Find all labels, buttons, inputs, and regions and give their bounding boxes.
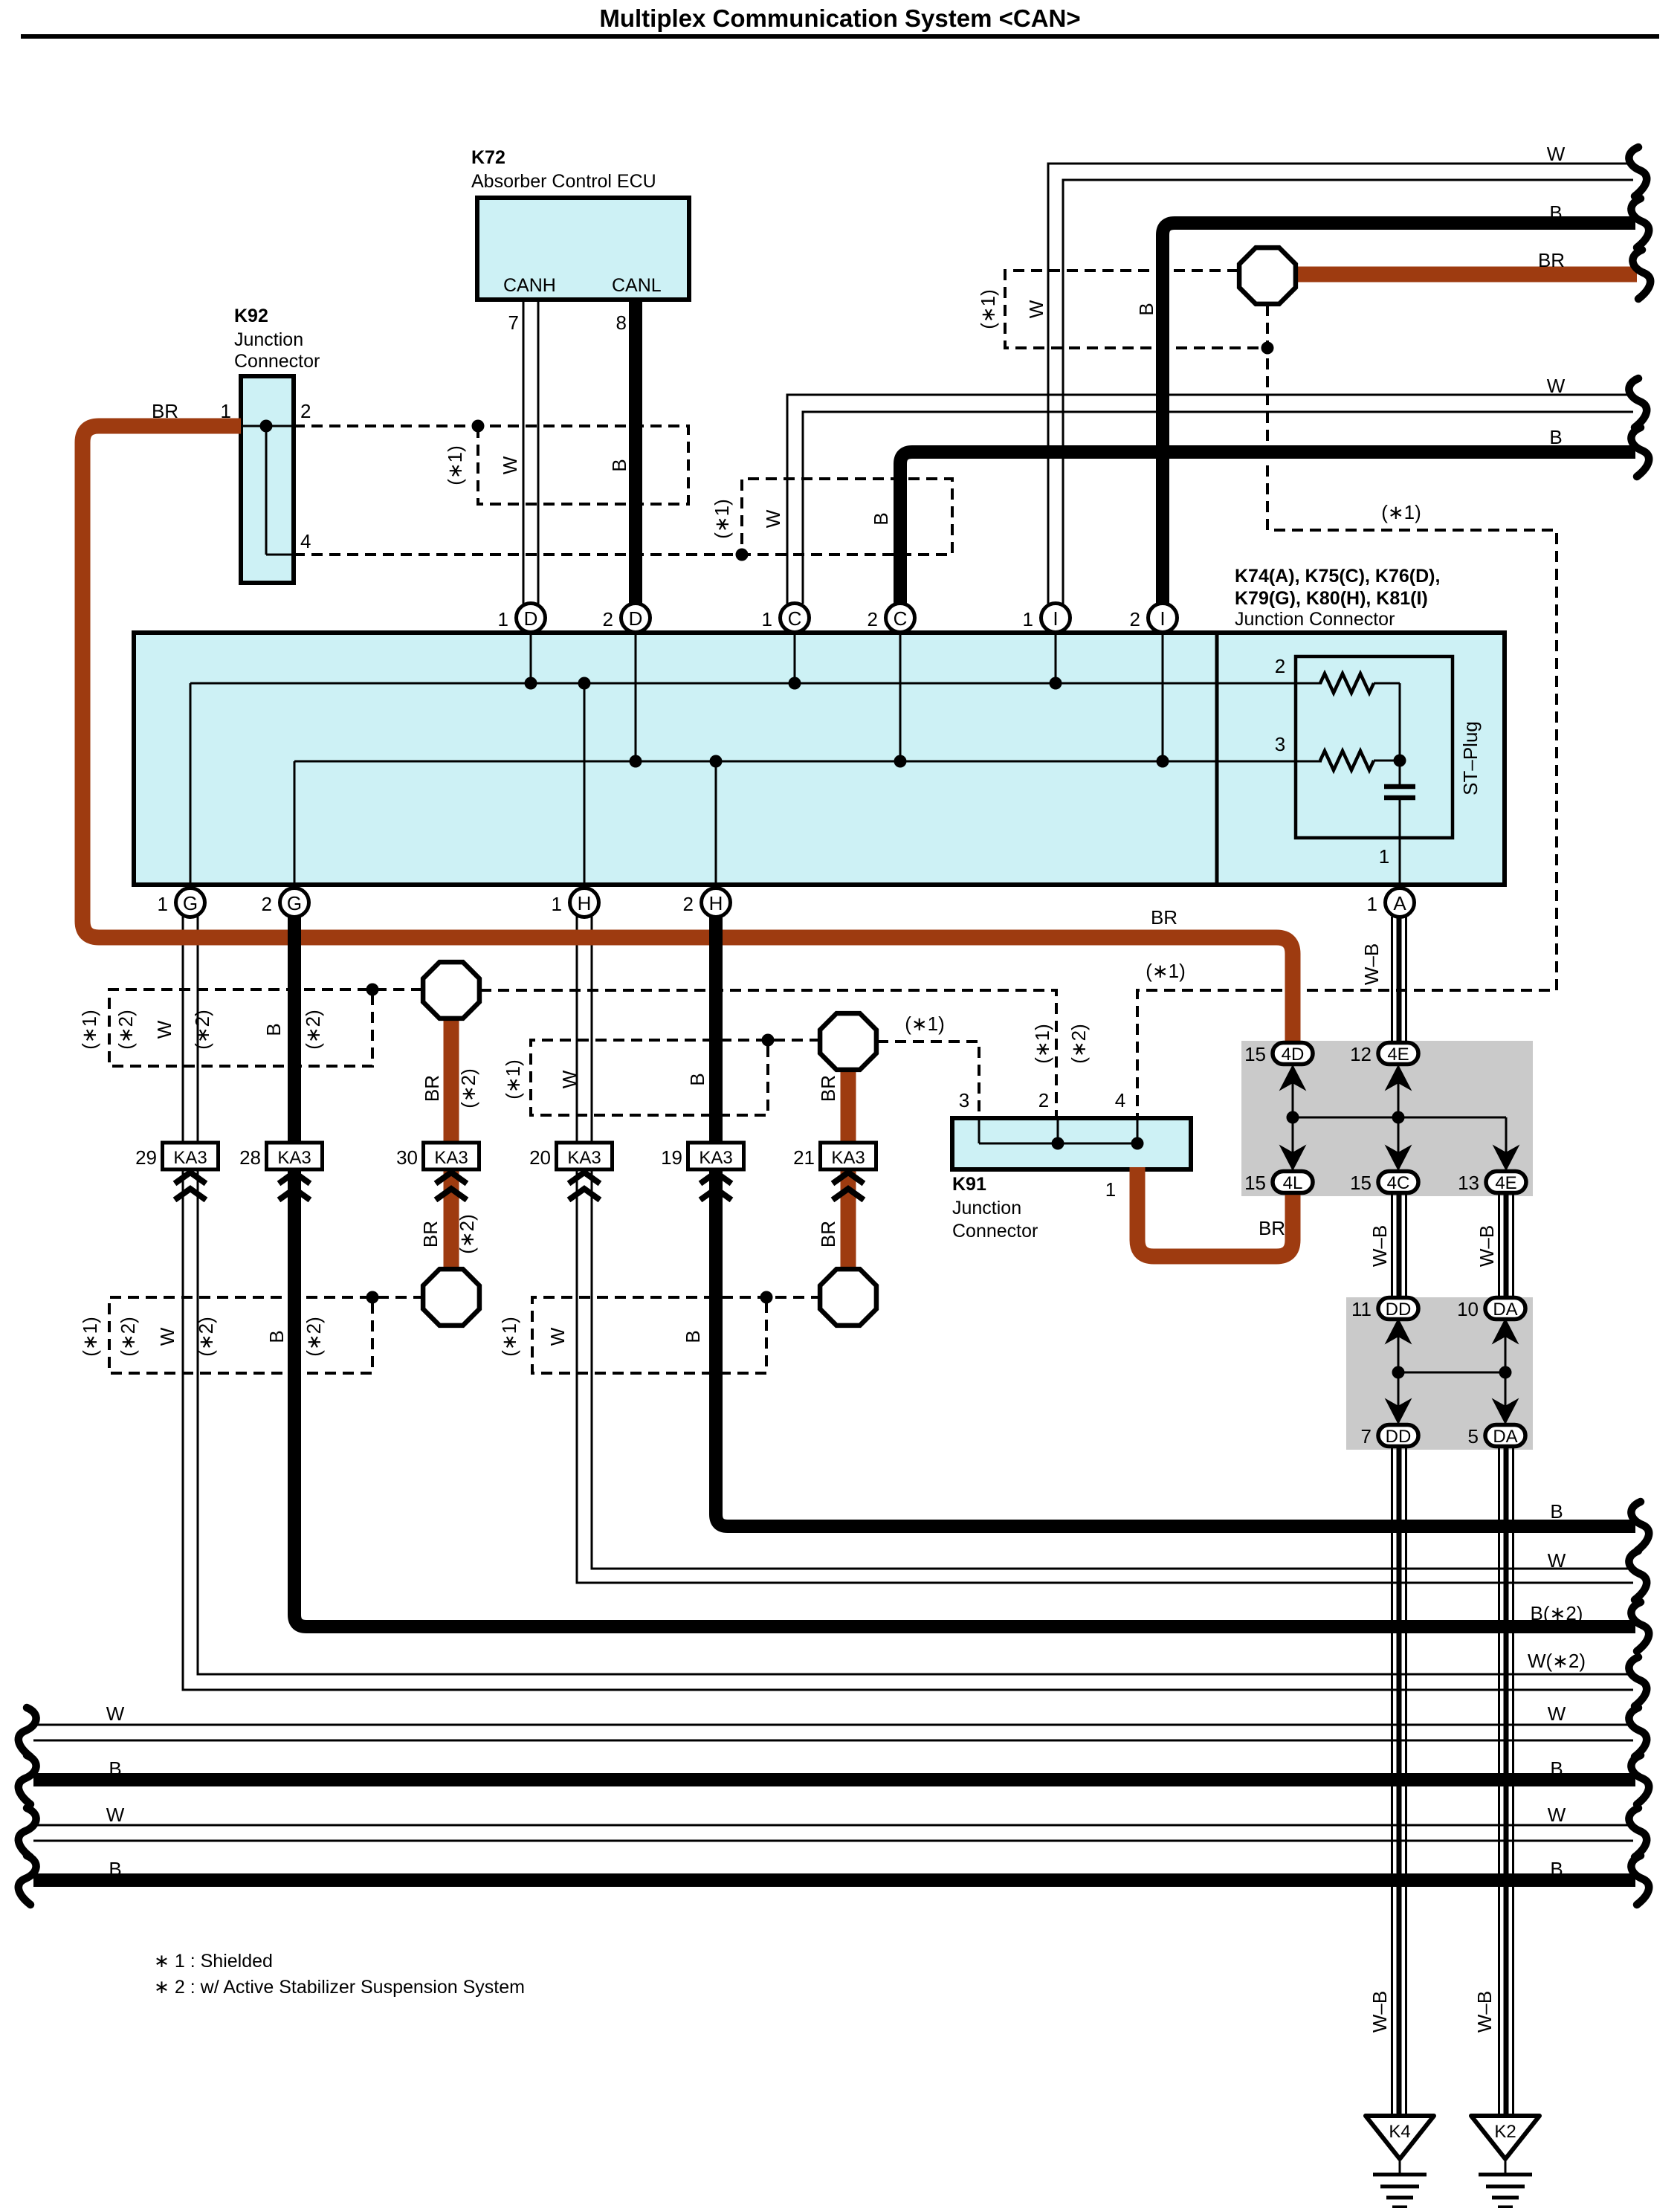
node 1D <box>525 677 537 690</box>
svg-text:W: W <box>153 1020 175 1039</box>
svg-text:B: B <box>870 512 892 525</box>
svg-text:I: I <box>1053 607 1058 630</box>
svg-text:W: W <box>1548 1549 1566 1572</box>
label W lower2 L <box>106 1804 125 1826</box>
pin 2H <box>683 888 731 917</box>
svg-text:10: 10 <box>1457 1298 1479 1320</box>
svg-text:(∗2): (∗2) <box>302 1010 324 1050</box>
svg-text:20: 20 <box>529 1146 551 1169</box>
break B right 2 <box>1631 427 1649 477</box>
stub 1G <box>190 683 192 885</box>
svg-text:W–B: W–B <box>1369 1225 1391 1267</box>
svg-text:ST–Plug: ST–Plug <box>1459 721 1482 795</box>
label W-B ground K2 <box>1473 1991 1496 2033</box>
wire BR 30 KA3 to lower shield terminal <box>444 1169 459 1297</box>
K91 internal bus <box>979 1118 1144 1150</box>
svg-text:A: A <box>1393 892 1406 914</box>
svg-text:15: 15 <box>1350 1172 1372 1194</box>
label BR right <box>1151 906 1177 929</box>
connector 21 KA3 <box>793 1143 876 1200</box>
svg-text:K92: K92 <box>234 306 268 326</box>
label B lower1 L <box>109 1757 121 1780</box>
svg-text:4C: 4C <box>1387 1173 1410 1193</box>
svg-text:W–B: W–B <box>1360 943 1383 985</box>
svg-text:I: I <box>1160 607 1165 630</box>
svg-text:W: W <box>106 1702 125 1725</box>
svg-text:BR: BR <box>421 1075 443 1102</box>
svg-text:Multiplex Communication System: Multiplex Communication System <CAN> <box>599 4 1080 32</box>
connector 7 DD <box>1361 1425 1418 1448</box>
connector 11 DD <box>1351 1298 1418 1321</box>
break BR right <box>1632 250 1650 299</box>
svg-text:BR: BR <box>419 1221 442 1247</box>
label B shield topright <box>1135 303 1157 315</box>
label K92 <box>234 306 320 372</box>
label BR top right <box>1538 249 1565 271</box>
label B bus <box>1550 1500 1563 1523</box>
terminating resistor pin2 <box>1320 674 1400 761</box>
shield terminal 30 lower <box>423 1269 479 1326</box>
svg-text:K79(G), K80(H), K81(I): K79(G), K80(H), K81(I) <box>1235 588 1428 609</box>
pin 2G <box>262 888 309 917</box>
svg-text:7: 7 <box>1361 1425 1372 1447</box>
svg-text:BR: BR <box>1259 1217 1285 1239</box>
svg-text:5: 5 <box>1468 1425 1479 1447</box>
wire W bus lower 2 <box>33 1825 1633 1841</box>
wire W to 1C <box>787 395 1633 604</box>
connector 15 4C <box>1350 1172 1418 1195</box>
svg-text:DA: DA <box>1493 1427 1517 1447</box>
label upper G shield (*2)b <box>191 1010 213 1050</box>
connector 19 KA3 <box>661 1143 743 1200</box>
break B lower1 left <box>19 1755 36 1804</box>
svg-text:(∗1): (∗1) <box>1031 1024 1053 1064</box>
label (*2) K91 pin2 <box>1067 1024 1090 1064</box>
break B lower1 right <box>1631 1755 1649 1804</box>
svg-text:11: 11 <box>1351 1298 1372 1320</box>
svg-text:W: W <box>762 509 784 528</box>
label (*2) 30 upper <box>457 1068 479 1108</box>
label lower H shield B <box>682 1330 704 1343</box>
connector 30 KA3 <box>396 1143 479 1200</box>
stub 1I <box>1055 633 1057 683</box>
svg-text:1: 1 <box>1367 893 1377 915</box>
stub 2D <box>635 633 637 761</box>
label upper H shield B <box>686 1073 708 1085</box>
svg-text:12: 12 <box>1350 1043 1372 1065</box>
svg-text:21: 21 <box>793 1146 815 1169</box>
label (*1) to K91 pin3 <box>905 1013 945 1035</box>
svg-text:CANL: CANL <box>612 275 662 296</box>
tie line 4D-4E-4E <box>1281 1066 1518 1172</box>
svg-text:BR: BR <box>817 1075 839 1102</box>
svg-text:D: D <box>524 607 538 630</box>
svg-text:BR: BR <box>1151 906 1177 929</box>
label BR K91 <box>1259 1217 1285 1239</box>
wire B bus lower 1 <box>33 1773 1635 1786</box>
svg-text:K72: K72 <box>471 147 505 168</box>
svg-text:W: W <box>1548 1804 1566 1826</box>
wire W bus lower 1 <box>33 1725 1633 1740</box>
svg-text:1: 1 <box>221 400 231 422</box>
svg-text:KA3: KA3 <box>173 1148 207 1168</box>
svg-text:(∗2): (∗2) <box>191 1010 213 1050</box>
svg-text:1: 1 <box>552 893 562 915</box>
label lower G shield (*2)c <box>303 1317 325 1357</box>
node 1I <box>1050 677 1062 690</box>
label B shield CANL <box>608 459 630 471</box>
label upper G shield B <box>262 1023 285 1036</box>
label K92 pin1 <box>221 400 231 422</box>
svg-text:(∗1): (∗1) <box>444 445 466 485</box>
shield around 1G/2G lower <box>109 1291 424 1374</box>
svg-text:W: W <box>1547 375 1566 397</box>
label B lower1 R <box>1550 1757 1563 1780</box>
ground K4 <box>1366 2116 1434 2207</box>
svg-text:Absorber Control ECU: Absorber Control ECU <box>471 171 656 192</box>
label W right 2 <box>1547 375 1566 397</box>
svg-text:∗ 1 : Shielded: ∗ 1 : Shielded <box>154 1951 273 1972</box>
node 1H <box>578 677 591 690</box>
break W right top <box>1629 147 1647 196</box>
svg-text:KA3: KA3 <box>831 1148 865 1168</box>
break W lower2 left <box>19 1808 36 1857</box>
svg-text:KA3: KA3 <box>277 1148 311 1168</box>
break B(*2) right bus <box>1631 1602 1649 1651</box>
svg-text:B: B <box>1549 201 1562 224</box>
label B right 2 <box>1549 426 1562 448</box>
label W lower2 R <box>1548 1804 1566 1826</box>
connector 20 KA3 <box>529 1143 612 1200</box>
svg-text:4L: 4L <box>1283 1173 1303 1193</box>
break B lower2 right <box>1631 1856 1649 1905</box>
svg-text:B: B <box>1549 426 1562 448</box>
label K91 pin2 num <box>1038 1089 1049 1111</box>
svg-text:KA3: KA3 <box>699 1148 732 1168</box>
inline connector block 4D/4E/4L/4C <box>1241 1041 1533 1196</box>
junction connector K74/K75/K76/K79/K80/K81 box <box>134 633 1505 885</box>
svg-text:(∗2): (∗2) <box>114 1010 137 1050</box>
svg-text:19: 19 <box>661 1146 682 1169</box>
stub 1H <box>584 683 586 885</box>
label W lower1 R <box>1548 1702 1566 1725</box>
connector 15 4L <box>1244 1172 1313 1195</box>
svg-text:DA: DA <box>1493 1300 1517 1320</box>
svg-text:2: 2 <box>1038 1089 1049 1111</box>
svg-text:B: B <box>262 1023 285 1036</box>
svg-text:(∗2): (∗2) <box>456 1214 478 1254</box>
wire W from 1G to W(*2) bus <box>183 917 1633 1690</box>
shield terminal top right <box>1239 248 1296 304</box>
svg-text:W: W <box>558 1070 581 1088</box>
svg-text:(∗1): (∗1) <box>78 1010 100 1050</box>
junction box CANL internal row <box>294 761 1322 763</box>
svg-text:Connector: Connector <box>234 351 320 372</box>
svg-text:(∗1): (∗1) <box>711 499 733 539</box>
label W-B pin A <box>1360 943 1383 985</box>
wire B to 2C <box>900 452 1635 604</box>
svg-text:4: 4 <box>300 530 311 552</box>
svg-text:(∗1): (∗1) <box>905 1013 945 1035</box>
wire BR shield terminal to 30 KA3 <box>444 990 459 1143</box>
break W lower1 right <box>1629 1708 1647 1757</box>
svg-text:(∗1): (∗1) <box>977 289 999 329</box>
svg-text:∗ 2 : w/ Active Stabilizer Sus: ∗ 2 : w/ Active Stabilizer Suspension Sy… <box>154 1977 525 1998</box>
svg-text:2: 2 <box>300 400 311 422</box>
shield terminal 21 upper <box>820 1013 876 1070</box>
label lower G shield W <box>156 1327 178 1346</box>
svg-text:K2: K2 <box>1494 2122 1516 2142</box>
label K92 pin2 <box>300 400 311 422</box>
stub 2C <box>899 633 902 761</box>
svg-text:(∗1): (∗1) <box>79 1317 101 1357</box>
wire CANH pair (W) K72 pin7 to 1D <box>523 300 538 604</box>
svg-text:W: W <box>499 456 521 474</box>
wire W-B 7-DD to ground K4 <box>1392 1446 1406 2116</box>
break B right top <box>1631 198 1649 248</box>
label W-B ground K4 <box>1369 1991 1391 2033</box>
svg-text:(∗2): (∗2) <box>117 1317 139 1357</box>
break W lower1 left <box>19 1708 36 1757</box>
svg-text:W: W <box>1548 1702 1566 1725</box>
pin 2I <box>1130 604 1177 633</box>
label lower G shield (*2)b <box>195 1317 217 1357</box>
wire W-B 13-4E to 10-DA <box>1499 1192 1513 1298</box>
svg-text:29: 29 <box>135 1146 157 1169</box>
svg-text:CANH: CANH <box>503 275 556 296</box>
K92 internal bus <box>241 420 294 555</box>
svg-text:B: B <box>1550 1500 1563 1523</box>
svg-text:B: B <box>608 459 630 471</box>
label B lower2 L <box>109 1858 121 1880</box>
svg-text:2: 2 <box>868 608 878 630</box>
node 2C <box>894 755 907 768</box>
svg-text:8: 8 <box>616 311 627 334</box>
stub 1C <box>794 633 796 683</box>
svg-text:DD: DD <box>1386 1300 1412 1320</box>
label B top right <box>1549 201 1562 224</box>
svg-text:B: B <box>686 1073 708 1085</box>
svg-text:C: C <box>894 607 908 630</box>
label upper G shield (*1) <box>78 1010 100 1050</box>
svg-text:W(∗2): W(∗2) <box>1528 1650 1586 1672</box>
label W shield topright <box>1025 300 1047 318</box>
label B shield 2C <box>870 512 892 525</box>
pin 2C <box>868 604 915 633</box>
label BR 30 upper <box>421 1075 443 1102</box>
label BR 21 lower <box>817 1221 839 1247</box>
break W right bus <box>1629 1551 1647 1600</box>
svg-text:B: B <box>265 1330 288 1343</box>
label ST-Plug pin3 <box>1275 733 1285 755</box>
svg-text:KA3: KA3 <box>567 1148 601 1168</box>
junction connector K91 box <box>952 1118 1191 1169</box>
svg-text:W–B: W–B <box>1476 1225 1498 1267</box>
shield terminal 21 lower <box>820 1269 876 1326</box>
label lower G shield (*1) <box>79 1317 101 1357</box>
label K91 pin3 <box>959 1089 969 1111</box>
svg-text:B: B <box>109 1858 121 1880</box>
shield (*1) around top-right W/B to shield terminal <box>1005 271 1274 355</box>
wire BR shield terminal to right edge <box>1286 267 1637 283</box>
svg-text:7: 7 <box>508 311 519 334</box>
pin 2D <box>603 604 650 633</box>
connector 12 4E <box>1350 1043 1418 1066</box>
stub 2G <box>294 761 296 885</box>
svg-text:1: 1 <box>762 608 772 630</box>
label ST-Plug <box>1459 721 1482 795</box>
label (*1) K91 pin2 <box>1031 1024 1053 1064</box>
shield terminal 30 to K91 pin2 <box>480 990 1056 1118</box>
wire W-B 5-DA to ground K2 <box>1499 1446 1513 2116</box>
svg-text:B: B <box>109 1757 121 1780</box>
svg-text:3: 3 <box>959 1089 969 1111</box>
svg-text:H: H <box>709 892 723 914</box>
svg-text:1: 1 <box>158 893 168 915</box>
svg-text:Connector: Connector <box>952 1221 1038 1242</box>
title <box>21 4 1659 36</box>
svg-text:(∗2): (∗2) <box>1067 1024 1090 1064</box>
svg-text:K91: K91 <box>952 1174 986 1195</box>
label ST-Plug pin2 <box>1275 655 1285 677</box>
ground K2 <box>1471 2116 1540 2207</box>
svg-text:W–B: W–B <box>1473 1991 1496 2033</box>
label W bus <box>1548 1549 1566 1572</box>
connector 5 DA <box>1468 1425 1525 1448</box>
break W right 2 <box>1629 378 1647 427</box>
svg-text:W: W <box>546 1327 569 1346</box>
connector 29 KA3 <box>135 1143 218 1200</box>
svg-text:4D: 4D <box>1282 1045 1305 1065</box>
svg-text:(∗1): (∗1) <box>1146 960 1186 982</box>
wire W to 1I <box>1048 164 1633 604</box>
pin 1G <box>158 888 205 917</box>
label upper G shield (*2)c <box>302 1010 324 1050</box>
svg-text:1: 1 <box>1105 1178 1116 1201</box>
terminating resistor pin3 <box>1320 751 1406 770</box>
label lower H shield (*1) <box>498 1317 520 1357</box>
connector 15 4D <box>1244 1043 1313 1066</box>
wire B bus lower 2 <box>33 1873 1635 1887</box>
label B(*2) bus <box>1531 1602 1583 1624</box>
label lower H shield W <box>546 1327 569 1346</box>
label 4E-DA W-B <box>1476 1225 1498 1267</box>
break B right bus <box>1631 1502 1649 1551</box>
label W shield 1C <box>762 509 784 528</box>
label upper H shield W <box>558 1070 581 1088</box>
svg-text:1: 1 <box>498 608 508 630</box>
shield (*1) around CANH/CANL from K92 pin2 <box>294 420 688 505</box>
label K72 <box>471 147 656 192</box>
label K92 pin4 <box>300 530 311 552</box>
label pin 8 <box>616 311 627 334</box>
wire B from 2H to B bus <box>716 917 1635 1526</box>
wire W-B 15-4C to 11-DD <box>1392 1192 1406 1298</box>
node 1C <box>789 677 801 690</box>
svg-text:2: 2 <box>262 893 272 915</box>
svg-text:B: B <box>1135 303 1157 315</box>
inline connector block DD/DA <box>1346 1297 1533 1450</box>
shield around 1H/2H upper <box>531 1034 821 1116</box>
svg-text:(∗2): (∗2) <box>195 1317 217 1357</box>
svg-text:1: 1 <box>1023 608 1033 630</box>
wire BR 21 KA3 to lower shield terminal <box>841 1169 856 1297</box>
label upper G shield (*2)a <box>114 1010 137 1050</box>
junction connector K92 box <box>241 376 294 583</box>
svg-text:(∗1): (∗1) <box>1381 501 1421 523</box>
svg-text:Junction: Junction <box>952 1198 1021 1218</box>
svg-text:W: W <box>156 1327 178 1346</box>
label (*1) shield topright <box>977 289 999 329</box>
ST-Plug box <box>1296 656 1453 838</box>
svg-text:(∗1): (∗1) <box>498 1317 520 1357</box>
wire BR shield terminal to 21 KA3 <box>841 1042 856 1143</box>
svg-text:28: 28 <box>239 1146 261 1169</box>
svg-text:W–B: W–B <box>1369 1991 1391 2033</box>
label W lower1 L <box>106 1702 125 1725</box>
shield terminal 21 to K91 pin3 <box>877 1042 979 1118</box>
footnote 1 <box>154 1951 273 1972</box>
svg-text:W: W <box>1025 300 1047 318</box>
shield (*1) terminal to K91 pin4 <box>1137 305 1557 1118</box>
svg-text:Junction: Junction <box>234 329 303 350</box>
svg-text:G: G <box>287 892 302 914</box>
wire W from 1H to W bus <box>577 917 1633 1583</box>
label BR left <box>152 400 178 422</box>
connector 10 DA <box>1457 1298 1525 1321</box>
wire CANL (B) K72 pin8 to 2D <box>629 300 642 604</box>
svg-text:BR: BR <box>152 400 178 422</box>
svg-text:C: C <box>788 607 802 630</box>
svg-text:4: 4 <box>1115 1089 1125 1111</box>
label W shield CANH <box>499 456 521 474</box>
svg-text:K4: K4 <box>1389 2122 1410 2142</box>
stub 2I <box>1162 633 1164 761</box>
svg-text:B: B <box>1550 1858 1563 1880</box>
shield terminal 30 upper <box>423 962 479 1019</box>
svg-text:B(∗2): B(∗2) <box>1531 1602 1583 1624</box>
wire BR K91 pin1 to 15-4L <box>1137 1167 1293 1256</box>
svg-text:BR: BR <box>1538 249 1565 271</box>
break B lower2 left <box>19 1856 36 1905</box>
svg-text:W: W <box>1547 143 1566 165</box>
label K91 pin4 num <box>1115 1089 1125 1111</box>
pin 1I <box>1023 604 1070 633</box>
tie line DD-DA <box>1386 1320 1517 1425</box>
label (*1) shield CANH <box>444 445 466 485</box>
label W top right <box>1547 143 1566 165</box>
label ST-Plug pin1 <box>1379 845 1389 868</box>
label lower G shield (*2)a <box>117 1317 139 1357</box>
svg-text:4E: 4E <box>1495 1173 1516 1193</box>
label upper G shield W <box>153 1020 175 1039</box>
svg-text:Junction Connector: Junction Connector <box>1235 609 1395 630</box>
node 2D <box>630 755 642 768</box>
label 4D-4E W-B left <box>1369 1225 1391 1267</box>
stub 1D <box>530 633 532 683</box>
svg-text:BR: BR <box>817 1221 839 1247</box>
shield around 1H/2H lower <box>532 1291 822 1374</box>
svg-text:K74(A), K75(C), K76(D),: K74(A), K75(C), K76(D), <box>1235 566 1440 587</box>
pin 1H <box>552 888 599 917</box>
capacitor <box>1384 761 1415 885</box>
wire B from 2G to B(*2) bus <box>294 917 1635 1627</box>
svg-text:(∗2): (∗2) <box>303 1317 325 1357</box>
shield around 1G/2G upper <box>109 984 422 1067</box>
label (*1) topright vert <box>1381 501 1421 523</box>
svg-text:3: 3 <box>1275 733 1285 755</box>
svg-text:2: 2 <box>1130 608 1140 630</box>
